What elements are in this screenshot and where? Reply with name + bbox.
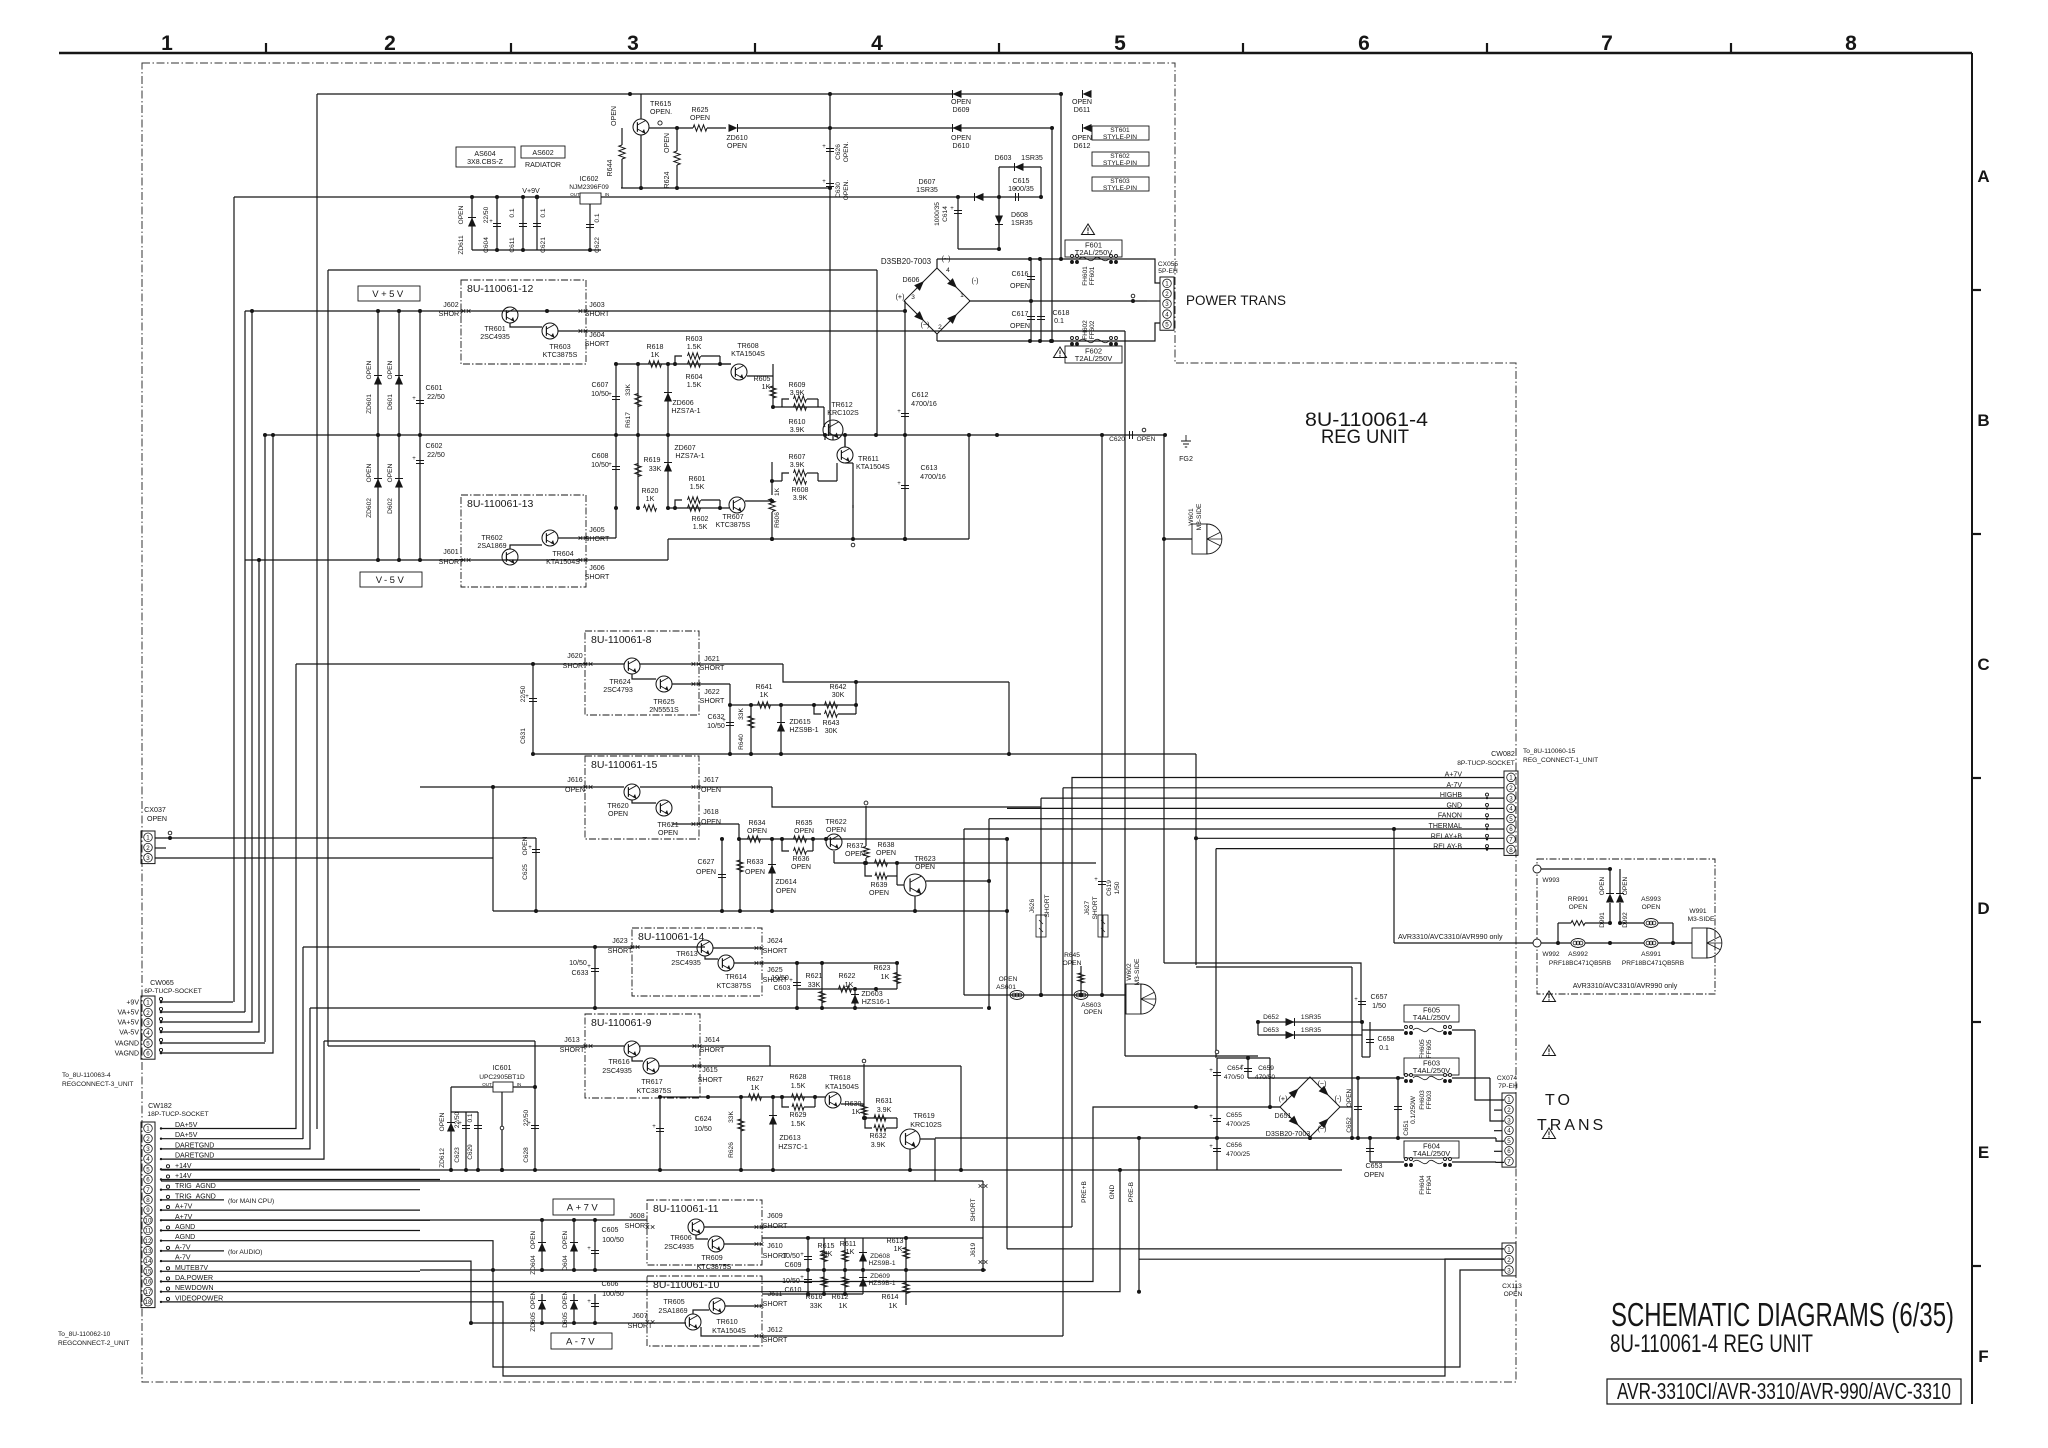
svg-text:1K: 1K <box>760 691 769 699</box>
svg-text:SHORT: SHORT <box>560 1046 585 1054</box>
capacitor C610 <box>782 1270 812 1294</box>
transistor TR623 <box>897 855 991 911</box>
capacitor C618 <box>1037 259 1070 341</box>
svg-text:4: 4 <box>946 267 950 274</box>
svg-text:C614: C614 <box>942 206 949 222</box>
svg-text:+9V: +9V <box>126 1000 139 1007</box>
capacitor C613 <box>897 464 946 489</box>
resistor R634 <box>747 819 767 842</box>
wire <box>587 559 668 561</box>
svg-text:+: + <box>897 409 901 415</box>
svg-text:C602: C602 <box>426 442 443 450</box>
label J604 <box>585 331 610 348</box>
capacitor C619 <box>1094 877 1121 896</box>
label 8U-110061-4 REG UNIT <box>1305 410 1428 448</box>
svg-text:ST601: ST601 <box>1110 127 1130 134</box>
svg-text:VAGND: VAGND <box>115 1041 139 1048</box>
svg-text:8U-110061-9: 8U-110061-9 <box>591 1017 652 1029</box>
capacitor C616 <box>1010 259 1035 301</box>
wire <box>937 340 1134 342</box>
capacitor C601 <box>412 311 445 435</box>
svg-text:OPEN: OPEN <box>745 868 765 876</box>
svg-text:8U-110061-14: 8U-110061-14 <box>638 931 705 943</box>
svg-text:6: 6 <box>1358 32 1370 55</box>
svg-text:OPEN: OPEN <box>530 1230 537 1249</box>
svg-text:OPEN: OPEN <box>951 134 971 142</box>
label V+5V box <box>358 286 420 301</box>
svg-text:HZS7A-1: HZS7A-1 <box>671 407 700 415</box>
svg-text:2SC4935: 2SC4935 <box>664 1243 694 1251</box>
svg-text:33K: 33K <box>649 465 662 473</box>
svg-text:+: + <box>822 179 826 185</box>
transistor TR604 <box>542 530 580 566</box>
svg-text:OPEN: OPEN <box>776 887 796 895</box>
svg-text:D607: D607 <box>919 178 936 186</box>
svg-text:FH604: FH604 <box>1419 1175 1426 1195</box>
svg-text:OPEN: OPEN <box>147 815 167 823</box>
svg-text:R617: R617 <box>625 412 632 428</box>
wire <box>533 753 1196 755</box>
svg-text:UPC2905BT1D: UPC2905BT1D <box>479 1074 525 1081</box>
svg-text:HZS16-1: HZS16-1 <box>862 998 890 1006</box>
svg-text:J621: J621 <box>704 655 719 663</box>
svg-text:D3SB20-7003: D3SB20-7003 <box>1266 1130 1311 1138</box>
wire <box>328 1045 624 1047</box>
wire <box>725 1305 762 1307</box>
wire <box>724 1243 762 1245</box>
svg-text:16: 16 <box>145 1279 152 1286</box>
wire <box>510 545 542 549</box>
wire <box>668 538 969 540</box>
svg-text:100/50: 100/50 <box>602 1236 624 1244</box>
connector W991 <box>1688 908 1722 958</box>
svg-text:J619: J619 <box>970 1243 977 1258</box>
wire <box>161 1170 1120 1292</box>
svg-text:OPEN: OPEN <box>1346 1088 1353 1107</box>
capacitor C609 <box>782 1236 812 1270</box>
svg-text:OPEN: OPEN <box>1364 1171 1384 1179</box>
svg-text:E: E <box>1978 1143 1989 1162</box>
diode ZD602 <box>366 435 382 562</box>
resistor R639 <box>863 861 897 897</box>
wire <box>1309 1137 1311 1138</box>
wire <box>1041 797 1504 799</box>
svg-text:D604: D604 <box>562 1255 569 1271</box>
svg-text:VAGND: VAGND <box>115 1051 139 1058</box>
capacitor C658 <box>1366 1022 1395 1057</box>
resistor R631 <box>874 1097 893 1121</box>
svg-text:STYLE-PIN: STYLE-PIN <box>1103 160 1137 167</box>
label J625 <box>763 966 788 984</box>
capacitor C657 <box>1354 993 1387 1057</box>
svg-text:TR602: TR602 <box>481 534 502 542</box>
resistor R619 <box>635 435 662 508</box>
svg-text:C611: C611 <box>509 237 516 253</box>
node A <box>628 92 632 96</box>
svg-text:10/50: 10/50 <box>782 1252 800 1260</box>
wire <box>451 1086 493 1088</box>
svg-text:C652: C652 <box>1346 1117 1353 1133</box>
resistor R630 <box>841 1100 867 1118</box>
svg-text:1: 1 <box>960 292 964 299</box>
svg-text:PRE+B: PRE+B <box>1081 1180 1088 1202</box>
svg-text:(+): (+) <box>896 293 905 301</box>
capacitor C606 <box>587 1280 624 1323</box>
svg-text:OUT: OUT <box>482 1082 492 1087</box>
svg-text:CX055: CX055 <box>1158 261 1178 268</box>
wire <box>234 196 580 198</box>
svg-text:C617: C617 <box>1012 310 1029 318</box>
svg-text:TR622: TR622 <box>825 818 846 826</box>
capacitor C659 <box>1215 1050 1275 1081</box>
svg-text:FF603: FF603 <box>1426 1090 1433 1109</box>
svg-text:RELAY+B: RELAY+B <box>1431 833 1463 840</box>
capacitor C656 <box>1209 1142 1250 1158</box>
svg-text:W602: W602 <box>1126 963 1133 981</box>
svg-text:C627: C627 <box>698 858 715 866</box>
svg-text:SHORT: SHORT <box>700 1046 725 1054</box>
wire <box>969 300 1147 302</box>
svg-text:R628: R628 <box>790 1073 807 1081</box>
wire <box>161 560 259 1032</box>
diode D991 <box>1599 876 1614 927</box>
svg-text:3.9K: 3.9K <box>793 494 808 502</box>
svg-text:1: 1 <box>1507 1097 1511 1104</box>
svg-text:6: 6 <box>146 1177 150 1184</box>
capacitor C615 <box>997 177 1043 201</box>
svg-text:KTC3875S: KTC3875S <box>637 1087 672 1095</box>
svg-text:AS992: AS992 <box>1568 951 1588 958</box>
svg-text:SHORT: SHORT <box>1044 895 1051 918</box>
svg-text:3: 3 <box>627 32 639 55</box>
svg-text:T4AL/250V: T4AL/250V <box>1413 1149 1451 1158</box>
svg-text:8U-110061-15: 8U-110061-15 <box>591 759 658 771</box>
svg-text:SHORT: SHORT <box>698 1076 723 1084</box>
svg-text:10/50: 10/50 <box>771 974 789 982</box>
resistor R645 <box>1063 952 1085 995</box>
svg-text:FF602: FF602 <box>1089 320 1096 339</box>
wire <box>161 664 296 1129</box>
svg-text:4: 4 <box>1509 806 1513 813</box>
svg-text:+: + <box>950 206 954 212</box>
svg-text:1K: 1K <box>646 495 655 503</box>
svg-text:0.1: 0.1 <box>1054 317 1064 325</box>
wire <box>1216 848 1504 850</box>
resistor R638 <box>875 841 897 866</box>
svg-text:3: 3 <box>146 855 150 862</box>
svg-text:D651: D651 <box>1275 1112 1292 1120</box>
svg-text:R606: R606 <box>774 512 781 528</box>
svg-text:R618: R618 <box>647 343 664 351</box>
block 8U-110061-12 <box>461 280 586 364</box>
svg-text:12: 12 <box>145 1238 152 1245</box>
svg-text:PRF18BC471QB5RB: PRF18BC471QB5RB <box>1622 960 1684 967</box>
wire <box>772 480 782 482</box>
transistor TR608 <box>720 342 765 380</box>
diode ZD607 <box>664 435 705 508</box>
resistor R614 <box>882 1270 910 1310</box>
label V-5V box <box>360 572 422 587</box>
wire <box>668 507 729 509</box>
svg-text:KTA1504S: KTA1504S <box>825 1083 859 1091</box>
resistor R628 <box>790 1073 807 1100</box>
wire <box>1340 1106 1352 1108</box>
label To_8U-110060-15 <box>1523 748 1598 764</box>
svg-text:CW065: CW065 <box>150 979 174 987</box>
resistor R606 <box>769 487 781 541</box>
svg-text:TR614: TR614 <box>725 973 746 981</box>
svg-text:J627: J627 <box>1084 901 1091 916</box>
block 8U-110061-10 <box>647 1276 762 1346</box>
wire <box>762 1237 983 1239</box>
svg-text:2SC4935: 2SC4935 <box>480 333 510 341</box>
svg-text:SHORT: SHORT <box>439 310 464 318</box>
capacitor C629 <box>467 1112 482 1170</box>
transistor TR611 <box>837 447 890 471</box>
svg-text:8P-TUCP-SOCKET: 8P-TUCP-SOCKET <box>1457 760 1515 767</box>
svg-text:R631: R631 <box>876 1097 893 1105</box>
svg-text:RADIATOR: RADIATOR <box>525 161 561 169</box>
svg-text:5: 5 <box>1509 816 1513 823</box>
capacitor C617 <box>1010 301 1035 341</box>
svg-text:OPEN: OPEN <box>1569 904 1588 911</box>
svg-text:J606: J606 <box>589 564 604 572</box>
transistor TR615 <box>610 100 672 135</box>
svg-text:C624: C624 <box>695 1115 712 1123</box>
svg-text:SHORT: SHORT <box>763 1336 788 1344</box>
capacitor C630 <box>822 126 850 200</box>
ic IC601 <box>479 1064 525 1092</box>
capacitor C623 <box>451 1111 478 1170</box>
svg-text:1: 1 <box>161 32 173 55</box>
svg-text:R605: R605 <box>754 375 771 383</box>
label J622 <box>700 688 725 705</box>
svg-text:+: + <box>1354 997 1358 1003</box>
svg-text:SHORT: SHORT <box>585 340 610 348</box>
diode D653 <box>1256 1020 1362 1039</box>
svg-text:R615: R615 <box>818 1242 835 1250</box>
wire <box>739 838 1007 840</box>
label J605 <box>585 526 610 543</box>
wire <box>510 323 542 327</box>
svg-text:10/50: 10/50 <box>569 959 587 967</box>
resistor R617 <box>625 364 641 435</box>
svg-text:(~): (~) <box>942 255 951 263</box>
svg-text:C621: C621 <box>540 237 547 253</box>
svg-text:R607: R607 <box>789 453 806 461</box>
svg-text:(for AUDIO): (for AUDIO) <box>228 1249 262 1256</box>
svg-text:2: 2 <box>146 845 150 852</box>
svg-text:0.1: 0.1 <box>467 1113 474 1122</box>
svg-text:1.5K: 1.5K <box>791 1082 806 1090</box>
wire <box>1248 1077 1404 1079</box>
svg-text:J604: J604 <box>589 331 604 339</box>
svg-text:SHORT: SHORT <box>763 1300 788 1308</box>
resistor R618 <box>647 343 664 367</box>
svg-text:4700/16: 4700/16 <box>911 400 937 408</box>
bridge rectifier D606 <box>881 255 979 334</box>
svg-text:C610: C610 <box>785 1286 802 1294</box>
svg-text:33K: 33K <box>728 1111 735 1123</box>
capacitor C654 <box>1209 1058 1244 1170</box>
wire <box>616 330 1125 332</box>
svg-text:1.5K: 1.5K <box>687 343 702 351</box>
resistor R635 <box>794 819 815 842</box>
model box AVR-3310CI/AVR-3310/AVR-990/AVC-3310 <box>1607 1378 1961 1404</box>
svg-text:R636: R636 <box>793 855 810 863</box>
connector CX037 <box>141 806 167 864</box>
capacitor C604 <box>483 195 501 253</box>
connector W601 <box>1188 503 1222 554</box>
svg-text:SHORT: SHORT <box>628 1322 653 1330</box>
svg-text:ZD607: ZD607 <box>674 444 695 452</box>
svg-text:2: 2 <box>938 324 942 331</box>
svg-text:TR604: TR604 <box>552 550 573 558</box>
wire <box>1541 868 1610 870</box>
connector CX055 <box>1158 261 1178 330</box>
svg-text:TR624: TR624 <box>609 678 630 686</box>
svg-text:TR603: TR603 <box>549 343 570 351</box>
transistor TR618 <box>825 1074 859 1108</box>
capacitor C627 <box>696 837 726 911</box>
svg-text:+: + <box>1094 877 1098 883</box>
diode D605 <box>562 1290 578 1327</box>
wire <box>310 1007 983 1009</box>
wire <box>1072 778 1504 1228</box>
node under TR607 <box>851 543 855 547</box>
svg-text:D603: D603 <box>995 154 1012 162</box>
svg-text:KRC102S: KRC102S <box>827 409 859 417</box>
svg-text:KRC102S: KRC102S <box>910 1121 942 1129</box>
svg-text:1: 1 <box>1507 1247 1511 1254</box>
label J613 <box>560 1036 585 1054</box>
wire <box>621 187 830 189</box>
wire <box>640 94 642 119</box>
svg-text:2SA1869: 2SA1869 <box>477 542 506 550</box>
svg-text:FF605: FF605 <box>1426 1039 1433 1058</box>
wire <box>734 962 897 964</box>
transistor TR616 <box>602 1041 640 1075</box>
svg-text:OPEN: OPEN <box>366 463 373 482</box>
resistor RR991 <box>1558 896 1612 926</box>
svg-text:J610: J610 <box>767 1242 782 1250</box>
svg-text:ZD604: ZD604 <box>530 1255 537 1275</box>
resistor R633 <box>737 839 765 911</box>
capacitor C625 <box>522 836 540 879</box>
svg-text:HZS9B-1: HZS9B-1 <box>868 1260 895 1267</box>
svg-text:TR615: TR615 <box>650 100 671 108</box>
svg-text:SHORT: SHORT <box>585 535 610 543</box>
wire <box>1007 807 1504 809</box>
ic IC602 <box>569 175 609 204</box>
svg-text:M3-SIDE: M3-SIDE <box>1688 916 1715 923</box>
svg-text:F: F <box>1978 1347 1988 1366</box>
svg-text:R604: R604 <box>686 373 703 381</box>
svg-text:GND: GND <box>1109 1184 1116 1199</box>
diode ZD601 <box>366 311 382 435</box>
svg-text:W601: W601 <box>1188 508 1195 526</box>
svg-text:SHORT: SHORT <box>1092 897 1099 920</box>
svg-text:C630: C630 <box>835 182 842 198</box>
wire <box>161 1001 233 1003</box>
transistor TR605 <box>658 1298 701 1330</box>
wire <box>161 1270 420 1272</box>
block AVR3310 option box <box>1537 859 1715 994</box>
svg-text:1: 1 <box>146 835 150 842</box>
svg-text:5: 5 <box>1507 1138 1511 1145</box>
svg-text:1K: 1K <box>762 383 771 391</box>
svg-text:C632: C632 <box>708 713 725 721</box>
svg-text:2N5551S: 2N5551S <box>649 706 679 714</box>
svg-text:C618: C618 <box>1053 309 1070 317</box>
wire <box>964 994 1126 996</box>
svg-text:1: 1 <box>1165 281 1169 288</box>
resistor R620 <box>642 487 659 511</box>
wire <box>471 1322 686 1324</box>
svg-text:C601: C601 <box>426 384 443 392</box>
wire <box>161 1199 224 1201</box>
diode ZD612 <box>439 1087 455 1170</box>
svg-text:IC601: IC601 <box>493 1064 512 1072</box>
svg-text:OPEN: OPEN <box>366 360 373 379</box>
transistor TR620 <box>607 784 640 818</box>
svg-text:(for MAIN CPU): (for MAIN CPU) <box>228 1198 274 1205</box>
svg-text:7: 7 <box>1601 32 1613 55</box>
svg-text:C604: C604 <box>483 237 490 253</box>
svg-text:R623: R623 <box>874 964 891 972</box>
label ST603 box <box>1092 177 1149 192</box>
svg-text:3.9K: 3.9K <box>790 389 805 397</box>
svg-text:C612: C612 <box>912 391 929 399</box>
fuse holder FH601 FF601 <box>1071 255 1118 286</box>
resistor R637 <box>845 801 869 863</box>
svg-text:17: 17 <box>145 1289 152 1296</box>
svg-text:SHORT: SHORT <box>585 310 610 318</box>
svg-text:1.5K: 1.5K <box>791 1120 806 1128</box>
svg-text:C613: C613 <box>921 464 938 472</box>
wire <box>161 1168 420 1170</box>
block 8U-110061-14 <box>632 928 762 996</box>
svg-text:AVR-3310CI/AVR-3310/AVR-990/AV: AVR-3310CI/AVR-3310/AVR-990/AVC-3310 <box>1617 1378 1951 1404</box>
svg-text:+: + <box>1209 1068 1213 1074</box>
svg-text:NJM2396F09: NJM2396F09 <box>569 184 609 191</box>
svg-text:3: 3 <box>1507 1267 1511 1274</box>
label J617 <box>701 776 721 794</box>
svg-text:J625: J625 <box>767 966 782 974</box>
wire <box>264 435 266 1042</box>
coil AS991 <box>1585 939 1692 968</box>
svg-text:R614: R614 <box>882 1293 899 1301</box>
svg-text:HZS9B-1: HZS9B-1 <box>789 726 818 734</box>
wire <box>317 93 1061 95</box>
wire <box>161 1219 647 1221</box>
svg-text:D992: D992 <box>1622 912 1629 928</box>
terminal W992 <box>1533 939 1560 958</box>
svg-text:OPEN.: OPEN. <box>843 180 850 201</box>
svg-text:J615: J615 <box>702 1066 717 1074</box>
svg-text:ZD611: ZD611 <box>458 235 465 255</box>
svg-text:R613: R613 <box>887 1237 904 1245</box>
svg-text:1K: 1K <box>751 1084 760 1092</box>
jumper crossing marks <box>462 309 988 1338</box>
connector CW082 <box>1457 750 1518 855</box>
fuse holder FH604 FF604 <box>1405 1158 1452 1195</box>
svg-text:8: 8 <box>1509 847 1513 854</box>
svg-text:3: 3 <box>1507 1117 1511 1124</box>
svg-text:R621: R621 <box>806 972 823 980</box>
svg-text:KTC3875S: KTC3875S <box>543 351 578 359</box>
svg-text:D605: D605 <box>562 1312 569 1328</box>
